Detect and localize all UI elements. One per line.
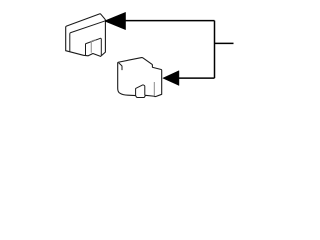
short tick line [215, 42, 234, 44]
clip part 2 (lower-middle), outer outline [118, 58, 162, 98]
clip part 2 inner rim [119, 63, 122, 70]
clip part 1 inner slot edge [91, 40, 95, 53]
leader line from arrow 1 to the right [126, 20, 215, 22]
arrow 1 (points left at part 1) [104, 12, 125, 29]
arrow 2 (points left at part 2) [163, 71, 179, 86]
vertical connector line [214, 21, 216, 79]
clip part 2 bottom tab [136, 85, 145, 96]
clip part 2 front crease [153, 82, 155, 96]
lower leader line to arrow 2 [179, 77, 215, 79]
clip part 1 inner rim [70, 21, 105, 52]
clip part 1 inner box [86, 38, 102, 55]
clip part 1 (upper-left), outer outline [66, 14, 106, 57]
